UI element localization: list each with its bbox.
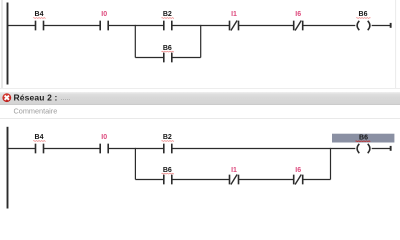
- svg-text:B2: B2: [163, 11, 172, 18]
- svg-text:B4: B4: [35, 134, 44, 141]
- svg-text:B2: B2: [163, 134, 172, 141]
- svg-text:B4: B4: [35, 11, 44, 18]
- svg-text:B6: B6: [359, 11, 368, 18]
- svg-text:I6: I6: [295, 11, 301, 18]
- svg-text:I0: I0: [101, 11, 107, 18]
- svg-text:Commentaire: Commentaire: [14, 107, 58, 116]
- svg-text:I1: I1: [231, 11, 237, 18]
- svg-text:I0: I0: [101, 134, 107, 141]
- svg-text:.....: .....: [61, 95, 71, 102]
- svg-text:I6: I6: [295, 167, 301, 174]
- svg-text:I1: I1: [231, 167, 237, 174]
- svg-text:Réseau 2 :: Réseau 2 :: [14, 92, 58, 102]
- svg-text:B6: B6: [359, 134, 368, 141]
